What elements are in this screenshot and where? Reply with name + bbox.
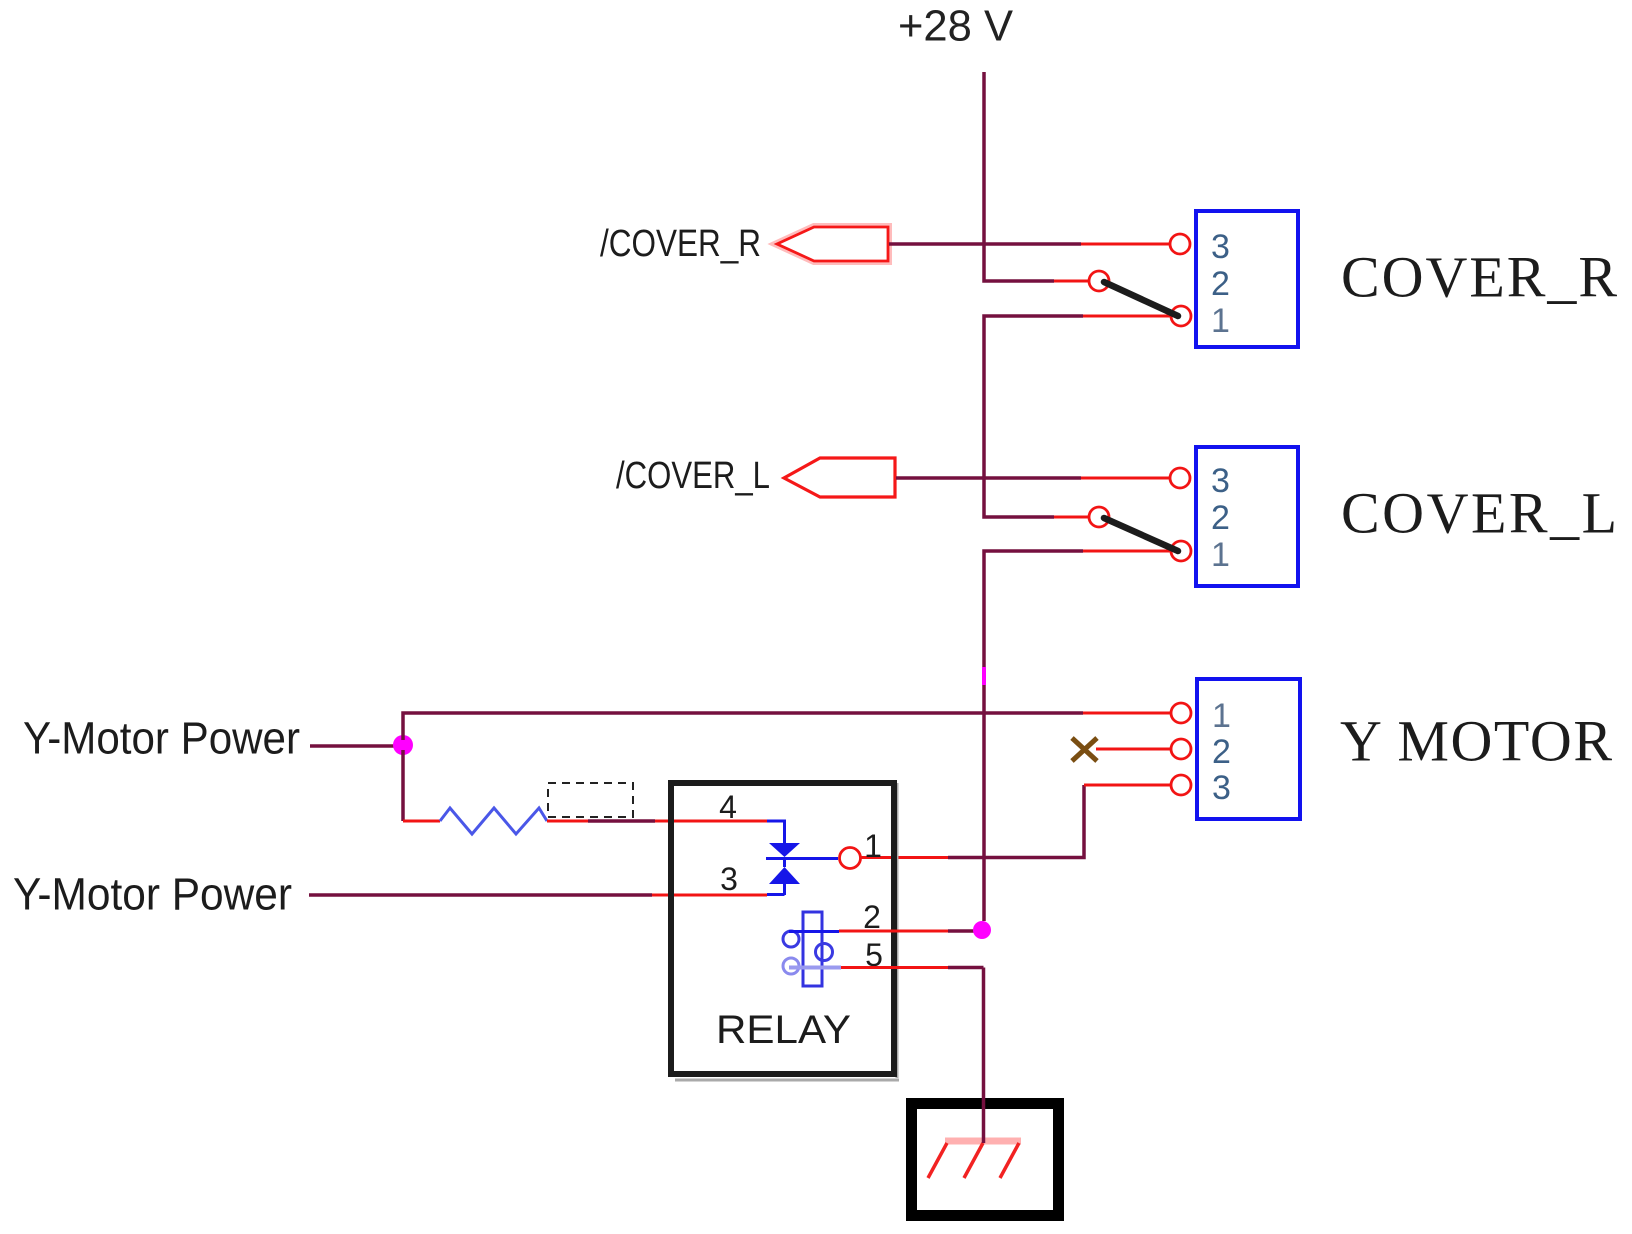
svg-text:/COVER_L: /COVER_L (616, 455, 770, 497)
relay pin 1 circle (840, 848, 861, 869)
pin circle COVER_L 2 (1089, 507, 1109, 527)
svg-text:1: 1 (864, 828, 882, 864)
junction marker on switched rail (982, 667, 986, 685)
pin circle COVER_R 2 (1089, 271, 1109, 291)
wire /COVER_R to COVER_R pin 3 (889, 242, 1170, 246)
junction dot relay pin 2 / rail (973, 921, 991, 939)
svg-text:/COVER_R: /COVER_R (600, 223, 761, 265)
svg-text:1: 1 (1211, 302, 1230, 340)
pin circle Y MOTOR 3 (1171, 775, 1191, 795)
label RELAY (716, 1008, 851, 1052)
wire Y-Motor Power to RELAY pin 3 (309, 893, 767, 897)
svg-text:RELAY: RELAY (716, 1008, 851, 1052)
connector COVER_R (1196, 211, 1298, 347)
switch blade COVER_L pins 2-1 (1104, 518, 1178, 551)
relay pin label 5 (865, 937, 883, 973)
relay pin label 4 (719, 789, 737, 825)
net label +28 V (898, 2, 1014, 51)
wire junction up and over to Y MOTOR pin 1 (403, 713, 1170, 740)
svg-text:COVER_R: COVER_R (1341, 245, 1617, 310)
diode pair inside relay (766, 821, 838, 895)
net label Y-Motor Power (upper) (23, 713, 300, 764)
wire X to Y MOTOR pin 2 (1096, 748, 1170, 751)
ground symbol (928, 1141, 1021, 1178)
svg-text:3: 3 (1211, 228, 1230, 266)
svg-text:3: 3 (720, 861, 738, 897)
no-connect X on Y MOTOR pin 2 (1072, 738, 1097, 761)
label Y MOTOR (1340, 709, 1612, 774)
wire RELAY pin 5 to ground (841, 968, 984, 1144)
connector Y MOTOR (1197, 679, 1300, 819)
pin circle COVER_R 1 (1171, 306, 1191, 326)
svg-text:Y MOTOR: Y MOTOR (1340, 709, 1612, 774)
pin circle COVER_R 3 (1170, 234, 1190, 254)
pin circle Y MOTOR 1 (1171, 703, 1191, 723)
net label /COVER_L (616, 455, 770, 497)
wire COVER_R pin 1 to COVER_L pin 2 (switched rail) (984, 316, 1170, 517)
signal arrow /COVER_L (784, 458, 895, 497)
wire resistor to RELAY pin 4 (547, 820, 767, 823)
svg-text:Y-Motor Power: Y-Motor Power (13, 869, 292, 920)
signal arrow /COVER_R (777, 227, 888, 261)
switch blade COVER_R pins 2-1 (1104, 282, 1178, 316)
svg-text:COVER_L: COVER_L (1341, 481, 1617, 546)
connector COVER_L (1196, 447, 1298, 586)
label COVER_R (1341, 245, 1617, 310)
pin circle COVER_L 3 (1170, 468, 1190, 488)
wire +28V rail down to COVER_R pin 2 (984, 72, 1089, 281)
svg-text:Y-Motor Power: Y-Motor Power (23, 713, 300, 764)
svg-text:2: 2 (1211, 499, 1230, 537)
wire RELAY pin 2 to rail junction (839, 930, 974, 933)
svg-text:3: 3 (1212, 769, 1231, 807)
svg-text:+28 V: +28 V (898, 2, 1014, 51)
ground box (912, 1104, 1059, 1216)
relay pin label 1 (864, 828, 882, 864)
wire Y MOTOR pin 3 to RELAY pin 1 (861, 785, 1170, 858)
label COVER_L (1341, 481, 1617, 546)
junction dot Y-Motor Power (393, 735, 413, 755)
wire junction down to resistor (403, 750, 440, 821)
value box (dashed, empty) (548, 783, 633, 817)
pin circle COVER_L 1 (1171, 541, 1191, 561)
relay pin label 3 (720, 861, 738, 897)
resistor (440, 808, 547, 834)
relay box (671, 783, 899, 1080)
wire /COVER_L to COVER_L pin 3 (896, 476, 1170, 480)
svg-text:2: 2 (1212, 733, 1231, 771)
relay coil (783, 912, 841, 986)
svg-text:1: 1 (1211, 536, 1230, 574)
svg-text:4: 4 (719, 789, 737, 825)
pin circle Y MOTOR 2 (1171, 739, 1191, 759)
wire COVER_L pin 1 rail down to relay junction (984, 551, 1170, 921)
svg-text:3: 3 (1211, 462, 1230, 500)
net label Y-Motor Power (lower) (13, 869, 292, 920)
wire Y-Motor Power to junction (310, 744, 398, 748)
relay pin label 2 (863, 899, 881, 935)
svg-text:1: 1 (1212, 697, 1231, 735)
net label /COVER_R (600, 223, 761, 265)
svg-text:2: 2 (1211, 265, 1230, 303)
